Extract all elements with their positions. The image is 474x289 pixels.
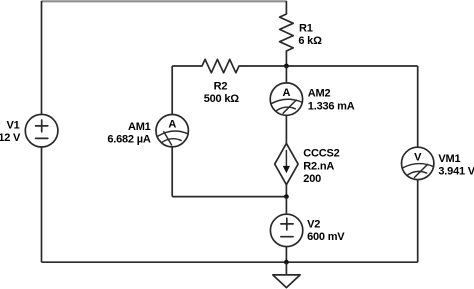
svg-text:6.682 µA: 6.682 µA <box>107 133 151 145</box>
current-controlled current source CCCS2 <box>275 143 298 184</box>
wire V2 lower lead to node C <box>285 247 287 263</box>
wire inner loop bottom to node B <box>172 196 286 198</box>
svg-text:VM1: VM1 <box>438 153 460 165</box>
svg-text:200: 200 <box>303 173 321 185</box>
svg-text:R2: R2 <box>214 80 228 92</box>
ammeter AM1 <box>156 115 188 147</box>
wire V2 upper lead <box>285 197 287 215</box>
resistor R2 <box>202 59 241 72</box>
svg-text:6 kΩ: 6 kΩ <box>298 35 322 47</box>
wire right branch upper (node A to VM1) <box>417 66 419 147</box>
svg-text:V1: V1 <box>7 120 20 132</box>
wire right branch lower (VM1 to bottom rail) <box>417 180 419 263</box>
wire CCCS2 lower lead to node B <box>285 185 287 197</box>
svg-text:V2: V2 <box>307 218 320 230</box>
wire top rail from V1 to R1 <box>42 0 287 2</box>
wire R2 right lead to node A <box>241 65 286 67</box>
svg-text:V: V <box>414 151 422 163</box>
node A junction dot <box>284 64 289 69</box>
node C junction dot <box>284 260 289 265</box>
wire node A to right branch <box>286 65 417 67</box>
voltmeter VM1 <box>402 147 434 179</box>
svg-text:12 V: 12 V <box>0 132 21 144</box>
wire bottom rail <box>42 261 418 263</box>
wire ground lead <box>285 262 287 275</box>
svg-text:600 mV: 600 mV <box>307 231 345 243</box>
ground <box>273 275 300 288</box>
svg-text:CCCS2: CCCS2 <box>303 147 339 159</box>
resistor R1 <box>280 1 294 66</box>
voltage source V1 <box>25 114 58 147</box>
svg-text:R1: R1 <box>299 22 313 34</box>
wire AM2 upper lead <box>285 66 287 83</box>
ammeter AM2 <box>270 83 302 115</box>
wire left rail bottom (V1 lower lead) <box>41 147 43 262</box>
svg-text:AM1: AM1 <box>128 121 151 133</box>
svg-text:3.941 V: 3.941 V <box>438 166 474 178</box>
voltage source V2 <box>270 214 302 246</box>
svg-text:A: A <box>168 119 176 131</box>
svg-text:1.336 mA: 1.336 mA <box>308 101 355 113</box>
node B junction dot <box>284 194 289 199</box>
wire left rail top (V1 upper lead) <box>41 1 43 115</box>
svg-text:500 kΩ: 500 kΩ <box>204 93 240 105</box>
wire R2 left lead from node <box>172 65 202 67</box>
svg-text:A: A <box>283 87 291 99</box>
wire AM1 lower lead <box>171 147 173 197</box>
wire AM2 lower lead to CCCS2 <box>285 115 287 143</box>
svg-text:R2.nA: R2.nA <box>303 160 334 172</box>
svg-text:AM2: AM2 <box>308 87 331 99</box>
wire AM1 upper lead <box>171 66 173 115</box>
